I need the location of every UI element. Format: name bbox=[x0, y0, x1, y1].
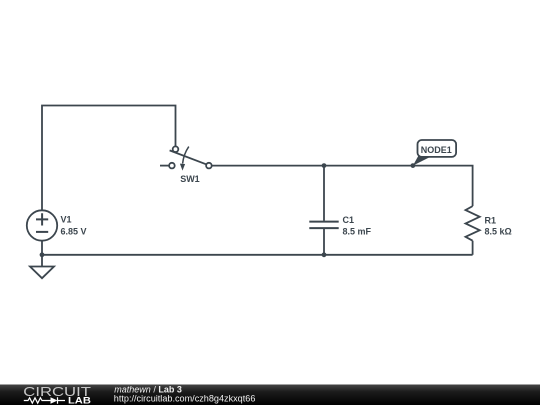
switch SW1 bbox=[169, 146, 212, 168]
svg-text:http://circuitlab.com/czh8g4zk: http://circuitlab.com/czh8g4zkxqt66 bbox=[114, 393, 256, 403]
svg-text:SW1: SW1 bbox=[180, 174, 200, 184]
wire: V1 bottom to ground junction bbox=[41, 241, 43, 255]
svg-text:8.5 kΩ: 8.5 kΩ bbox=[485, 226, 512, 236]
junction dot: C1 bottom bbox=[322, 252, 327, 257]
wire: V1 top up, across, down to switch top terminal bbox=[42, 106, 176, 211]
node NODE1 callout bubble bbox=[418, 140, 457, 157]
logo diode triangle bbox=[51, 397, 58, 403]
svg-text:NODE1: NODE1 bbox=[421, 145, 452, 155]
svg-text:V1: V1 bbox=[61, 215, 72, 225]
svg-text:6.85 V: 6.85 V bbox=[61, 227, 87, 237]
svg-text:C1: C1 bbox=[343, 215, 355, 225]
wire: C1 top lead bbox=[323, 166, 325, 221]
svg-text:R1: R1 bbox=[485, 215, 497, 225]
capacitor C1 plates bbox=[309, 222, 338, 229]
wire: switch right terminal to top-right corner, down to R1 bbox=[212, 166, 473, 207]
svg-text:8.5 mF: 8.5 mF bbox=[343, 226, 372, 236]
junction dot: C1 top bbox=[322, 163, 327, 168]
voltage source V1 bbox=[27, 210, 57, 240]
resistor R1 zigzag bbox=[466, 206, 480, 241]
ground bbox=[30, 255, 54, 278]
junction dot: V1/ground/bottom rail bbox=[40, 252, 45, 257]
wire: R1 bottom lead bbox=[472, 241, 474, 255]
svg-text:LAB: LAB bbox=[68, 395, 91, 405]
wire: C1 bottom lead bbox=[323, 229, 325, 255]
node NODE1 callout tail bbox=[413, 155, 431, 166]
wire: bottom rail from ground junction to R1 bottom bbox=[42, 254, 473, 256]
wire: switch left open stub bbox=[160, 165, 169, 167]
switch SW1 arrowhead bbox=[180, 164, 185, 171]
node NODE1 anchor dot bbox=[411, 163, 416, 168]
logo resistor-diode squiggle bbox=[24, 397, 65, 403]
